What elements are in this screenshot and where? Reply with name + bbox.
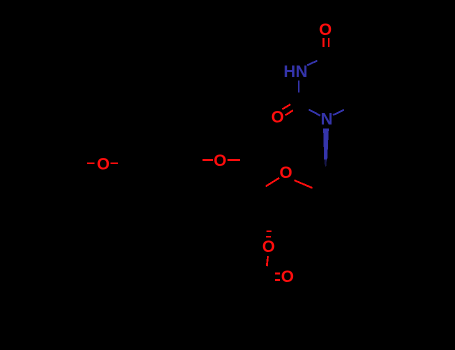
wire: N3-C4 bond half (blue) — [307, 61, 317, 66]
svg-text:N: N — [321, 111, 333, 129]
wire: N3-C2 bond half (blue) — [298, 80, 300, 92]
wire: N1-C6 bond half (blue) — [333, 110, 344, 115]
svg-text:O: O — [262, 238, 275, 256]
svg-text:HN: HN — [284, 63, 308, 81]
wire: ring O to C4' bond half (red) — [266, 178, 280, 187]
wire: O-aryl bond half (red) — [111, 162, 119, 164]
svg-text:O: O — [271, 109, 284, 127]
wire: C=O double bond halves (red) — [275, 273, 280, 275]
svg-text:O: O — [281, 268, 294, 286]
wire: CH3-O bond half (red) — [87, 162, 94, 164]
wire: hashed wedge dashes C3' to O3' (red) — [267, 230, 272, 232]
wire: C4=O4 double bond halves (red) — [322, 38, 324, 47]
wire: N1-C1' wedge bond half (blue) — [323, 129, 329, 160]
wire: O3'-C(O) bond half (red) — [267, 256, 268, 266]
wire: faint lower half of wedge toward C1' — [324, 160, 327, 167]
svg-text:O: O — [319, 21, 332, 39]
wire: O-C5' bond half (red) — [228, 159, 240, 161]
svg-text:O: O — [279, 164, 292, 182]
wire: C2=O2 double bond halves (red) — [282, 104, 290, 109]
svg-text:O: O — [214, 152, 227, 170]
wire: ring O to C1' bond half (red) — [294, 180, 312, 188]
svg-text:O: O — [97, 155, 110, 173]
wire: N1-C2 bond half (blue) — [309, 110, 321, 116]
wire: aryl-O bond half (red) — [202, 159, 213, 161]
